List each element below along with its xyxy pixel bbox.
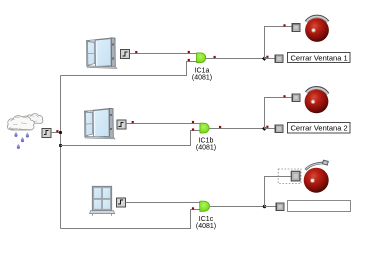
window sensor 1 interface box: [121, 50, 130, 59]
wire to bell 1: [265, 27, 292, 59]
rain sensor interface box: [42, 128, 51, 137]
svg-text:(4081): (4081): [192, 75, 212, 82]
window sensor 3 interface box: [116, 198, 125, 207]
junction row3 output: [263, 205, 266, 208]
wire branch row1: [61, 62, 197, 76]
bell 1 striker band: [306, 16, 328, 22]
wire to text box 3: [265, 206, 277, 208]
junction row1 output: [262, 56, 267, 61]
raindrop: [17, 144, 20, 149]
bell 1: [305, 18, 329, 42]
pin dot window2: [132, 121, 134, 123]
bell 2 striker band: [306, 87, 328, 94]
junction row2 branch: [59, 144, 62, 147]
wire IC1c output: [210, 206, 264, 208]
wire IC1a output: [206, 58, 264, 60]
svg-text:(4081): (4081): [196, 145, 216, 152]
wire window3 to IC1c input A: [125, 202, 199, 204]
AND gate IC1a: [197, 53, 206, 63]
wire rain sensor output: [51, 132, 61, 134]
svg-text:IC1a: IC1a: [195, 68, 210, 75]
pin dot IC1b input A: [192, 121, 194, 123]
bell 3 striker arm raised: [306, 163, 324, 170]
pin dot IC1b input B: [192, 128, 194, 130]
window sensor 3 (closed window icon): [90, 186, 115, 215]
text box 3 (empty): [288, 201, 351, 212]
svg-text:IC1c: IC1c: [199, 216, 214, 223]
bell 3: [304, 168, 329, 193]
window sensor 2 interface box: [117, 120, 126, 129]
text box "Cerrar Ventana 1": [288, 53, 351, 63]
raindrop: [14, 132, 17, 137]
pin dot IC1a input A: [188, 51, 190, 53]
bell 2: [305, 90, 329, 114]
wire window2 to IC1b input A: [126, 123, 200, 125]
window sensor 1 (open window icon): [87, 38, 118, 69]
pin dot window1: [135, 51, 137, 53]
svg-text:(4081): (4081): [196, 223, 216, 230]
window sensor 2 (open window icon): [85, 108, 116, 139]
pin dot rain sensor: [56, 130, 58, 132]
pin dot bell 1: [283, 24, 285, 26]
connector bell 2: [292, 94, 300, 102]
wire branch row3: [61, 210, 200, 229]
wire window1 to IC1a input A: [130, 53, 197, 55]
pin dot IC1c input B: [192, 207, 194, 209]
connector bell 1: [292, 24, 300, 32]
pin dot IC1a output: [214, 56, 216, 58]
wire to text box 2: [265, 128, 276, 130]
wire to bell 3: [265, 177, 292, 207]
connector text box 3: [276, 203, 284, 211]
raindrop: [26, 132, 29, 137]
pin dot bell 2: [283, 95, 285, 97]
wire to bell 2: [265, 98, 292, 129]
connector bell 3: [291, 171, 300, 181]
pin dot IC1b output: [219, 126, 221, 128]
junction row2 output: [262, 126, 267, 131]
rain sensor cloud icon: [7, 114, 43, 130]
connector text box 2: [275, 125, 283, 133]
connector text box 1: [275, 55, 283, 63]
AND gate IC1b: [200, 123, 209, 133]
svg-text:Cerrar Ventana 2: Cerrar Ventana 2: [291, 124, 348, 133]
raindrop: [21, 137, 24, 142]
junction rain output: [59, 131, 62, 134]
svg-text:Cerrar Ventana 1: Cerrar Ventana 1: [291, 53, 348, 62]
pin dot text box 1: [266, 56, 268, 58]
svg-text:IC1b: IC1b: [199, 138, 214, 145]
selection dashed box bell 3: [278, 169, 301, 184]
pin dot IC1a input B: [188, 59, 190, 61]
wire branch row2: [61, 131, 201, 146]
wire to text box 1: [265, 58, 276, 60]
pin dot text box 2: [266, 126, 268, 128]
text box "Cerrar Ventana 2": [288, 123, 351, 134]
AND gate IC1c: [200, 201, 210, 211]
wire rain bus vertical: [60, 76, 62, 229]
wire IC1b output: [210, 128, 264, 130]
